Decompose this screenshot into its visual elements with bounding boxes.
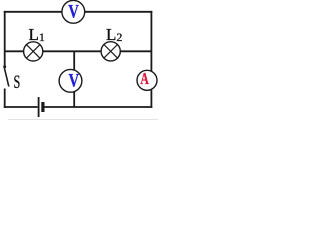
svg-text:V: V xyxy=(68,2,79,22)
svg-text:A: A xyxy=(140,69,148,88)
svg-text:V: V xyxy=(69,71,80,91)
svg-text:S: S xyxy=(14,72,21,93)
